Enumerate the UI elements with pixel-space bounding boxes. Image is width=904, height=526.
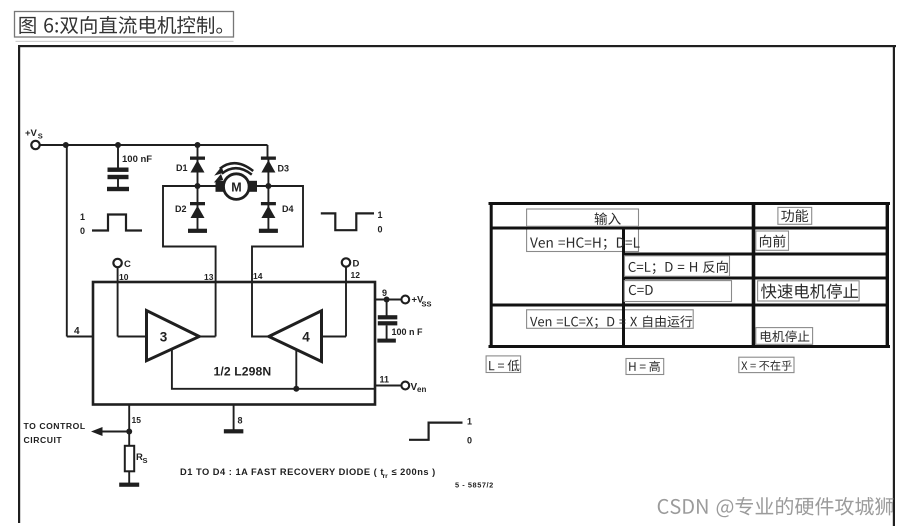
svg-text:rr: rr [383,473,389,480]
svg-text:9: 9 [382,288,387,298]
svg-text:0: 0 [80,226,85,236]
svg-text:4: 4 [302,330,310,345]
svg-text:+V: +V [25,128,38,139]
svg-text:14: 14 [253,271,263,281]
svg-text:≤ 200ns ): ≤ 200ns ) [392,467,436,477]
svg-text:S: S [143,456,148,465]
svg-text:D4: D4 [282,204,294,214]
svg-text:12: 12 [351,270,361,280]
svg-text:1: 1 [467,417,472,427]
svg-text:10: 10 [119,272,129,282]
svg-text:CIRCUIT: CIRCUIT [24,435,63,445]
svg-text:8: 8 [238,416,243,426]
svg-text:en: en [417,385,426,394]
svg-text:0: 0 [378,225,383,235]
svg-text:D: D [353,259,360,270]
svg-text:100 n F: 100 n F [392,327,424,337]
svg-text:D1: D1 [176,163,188,173]
svg-text:TO CONTROL: TO CONTROL [24,421,86,431]
svg-text:SS: SS [422,300,432,309]
svg-text:5 - 5857/2: 5 - 5857/2 [455,481,494,490]
svg-text:1/2 L298N: 1/2 L298N [214,365,272,379]
svg-text:1: 1 [378,210,383,220]
svg-text:S: S [38,132,43,141]
svg-text:0: 0 [467,436,472,446]
svg-text:D3: D3 [278,164,290,174]
svg-text:M: M [231,180,241,194]
svg-text:13: 13 [204,272,214,282]
svg-text:11: 11 [380,375,390,385]
svg-text:D1 TO D4 : 1A FAST RECOVERY D: D1 TO D4 : 1A FAST RECOVERY DIODE ( t [180,467,384,477]
svg-text:1: 1 [80,212,85,222]
svg-text:15: 15 [132,415,142,425]
svg-text:D2: D2 [175,204,187,214]
svg-text:4: 4 [74,326,80,337]
svg-text:3: 3 [160,330,168,345]
svg-text:100 nF: 100 nF [122,154,152,165]
svg-text:C: C [124,259,131,270]
